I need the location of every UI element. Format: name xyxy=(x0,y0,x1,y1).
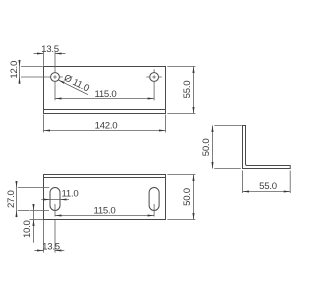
svg-text:12.0: 12.0 xyxy=(9,61,20,79)
svg-text:27.0: 27.0 xyxy=(6,190,17,208)
svg-text:142.0: 142.0 xyxy=(95,120,118,131)
svg-text:55.0: 55.0 xyxy=(259,181,277,192)
svg-text:115.0: 115.0 xyxy=(93,205,115,216)
svg-text:13.5: 13.5 xyxy=(42,241,60,252)
svg-text:10.0: 10.0 xyxy=(22,220,33,238)
svg-text:115.0: 115.0 xyxy=(94,89,116,100)
svg-text:50.0: 50.0 xyxy=(201,139,212,157)
svg-text:50.0: 50.0 xyxy=(182,188,193,206)
svg-text:13.5: 13.5 xyxy=(41,44,59,55)
svg-text:55.0: 55.0 xyxy=(182,81,193,99)
svg-text:11.0: 11.0 xyxy=(62,188,79,199)
